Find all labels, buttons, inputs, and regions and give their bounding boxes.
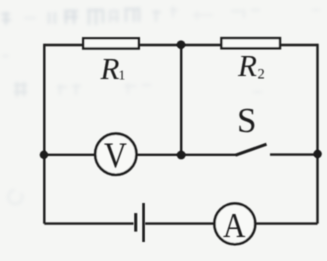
wire: right rail	[316, 44, 318, 224]
junction node: middle vertical / switch branch	[177, 151, 186, 160]
junction node: left rail / voltmeter branch	[40, 151, 48, 159]
battery cell: short thick plate	[134, 213, 137, 232]
wire: top rail between R1 and R2	[138, 44, 222, 46]
wire: switch right contact to right rail	[270, 153, 318, 155]
svg-text:A: A	[223, 207, 246, 245]
wire: top rail left segment	[44, 44, 84, 46]
svg-text:2: 2	[258, 67, 265, 83]
wire: bottom rail left of battery	[44, 222, 133, 224]
ammeter U-A circle	[214, 204, 255, 245]
junction node: right rail / switch branch	[313, 150, 321, 158]
label R2	[237, 48, 265, 83]
label A (ammeter)	[223, 207, 246, 245]
resistor R1	[83, 38, 139, 48]
resistor R2	[221, 38, 280, 48]
svg-text:S: S	[237, 101, 256, 140]
wire: bottom rail right of ammeter	[254, 222, 318, 224]
label R1	[100, 51, 126, 86]
svg-text:V: V	[104, 136, 127, 175]
junction node: top between R1 and R2	[177, 40, 186, 49]
wire: left rail	[43, 44, 45, 224]
battery cell: long plate	[142, 203, 145, 242]
svg-text:R: R	[237, 48, 257, 83]
svg-text:R: R	[100, 51, 120, 86]
wire: bottom rail from battery to ammeter	[145, 222, 216, 224]
switch S blade	[236, 144, 267, 155]
bleed-through ghost marks (blurred, faint)	[1, 6, 320, 204]
svg-text:1: 1	[119, 67, 126, 82]
wire: middle horizontal voltmeter branch	[44, 154, 236, 156]
wire: top rail right segment	[279, 44, 318, 46]
voltmeter U-V circle	[95, 134, 136, 175]
label V (voltmeter)	[104, 136, 127, 175]
wire: middle vertical from node between R1 and R2	[180, 45, 182, 155]
